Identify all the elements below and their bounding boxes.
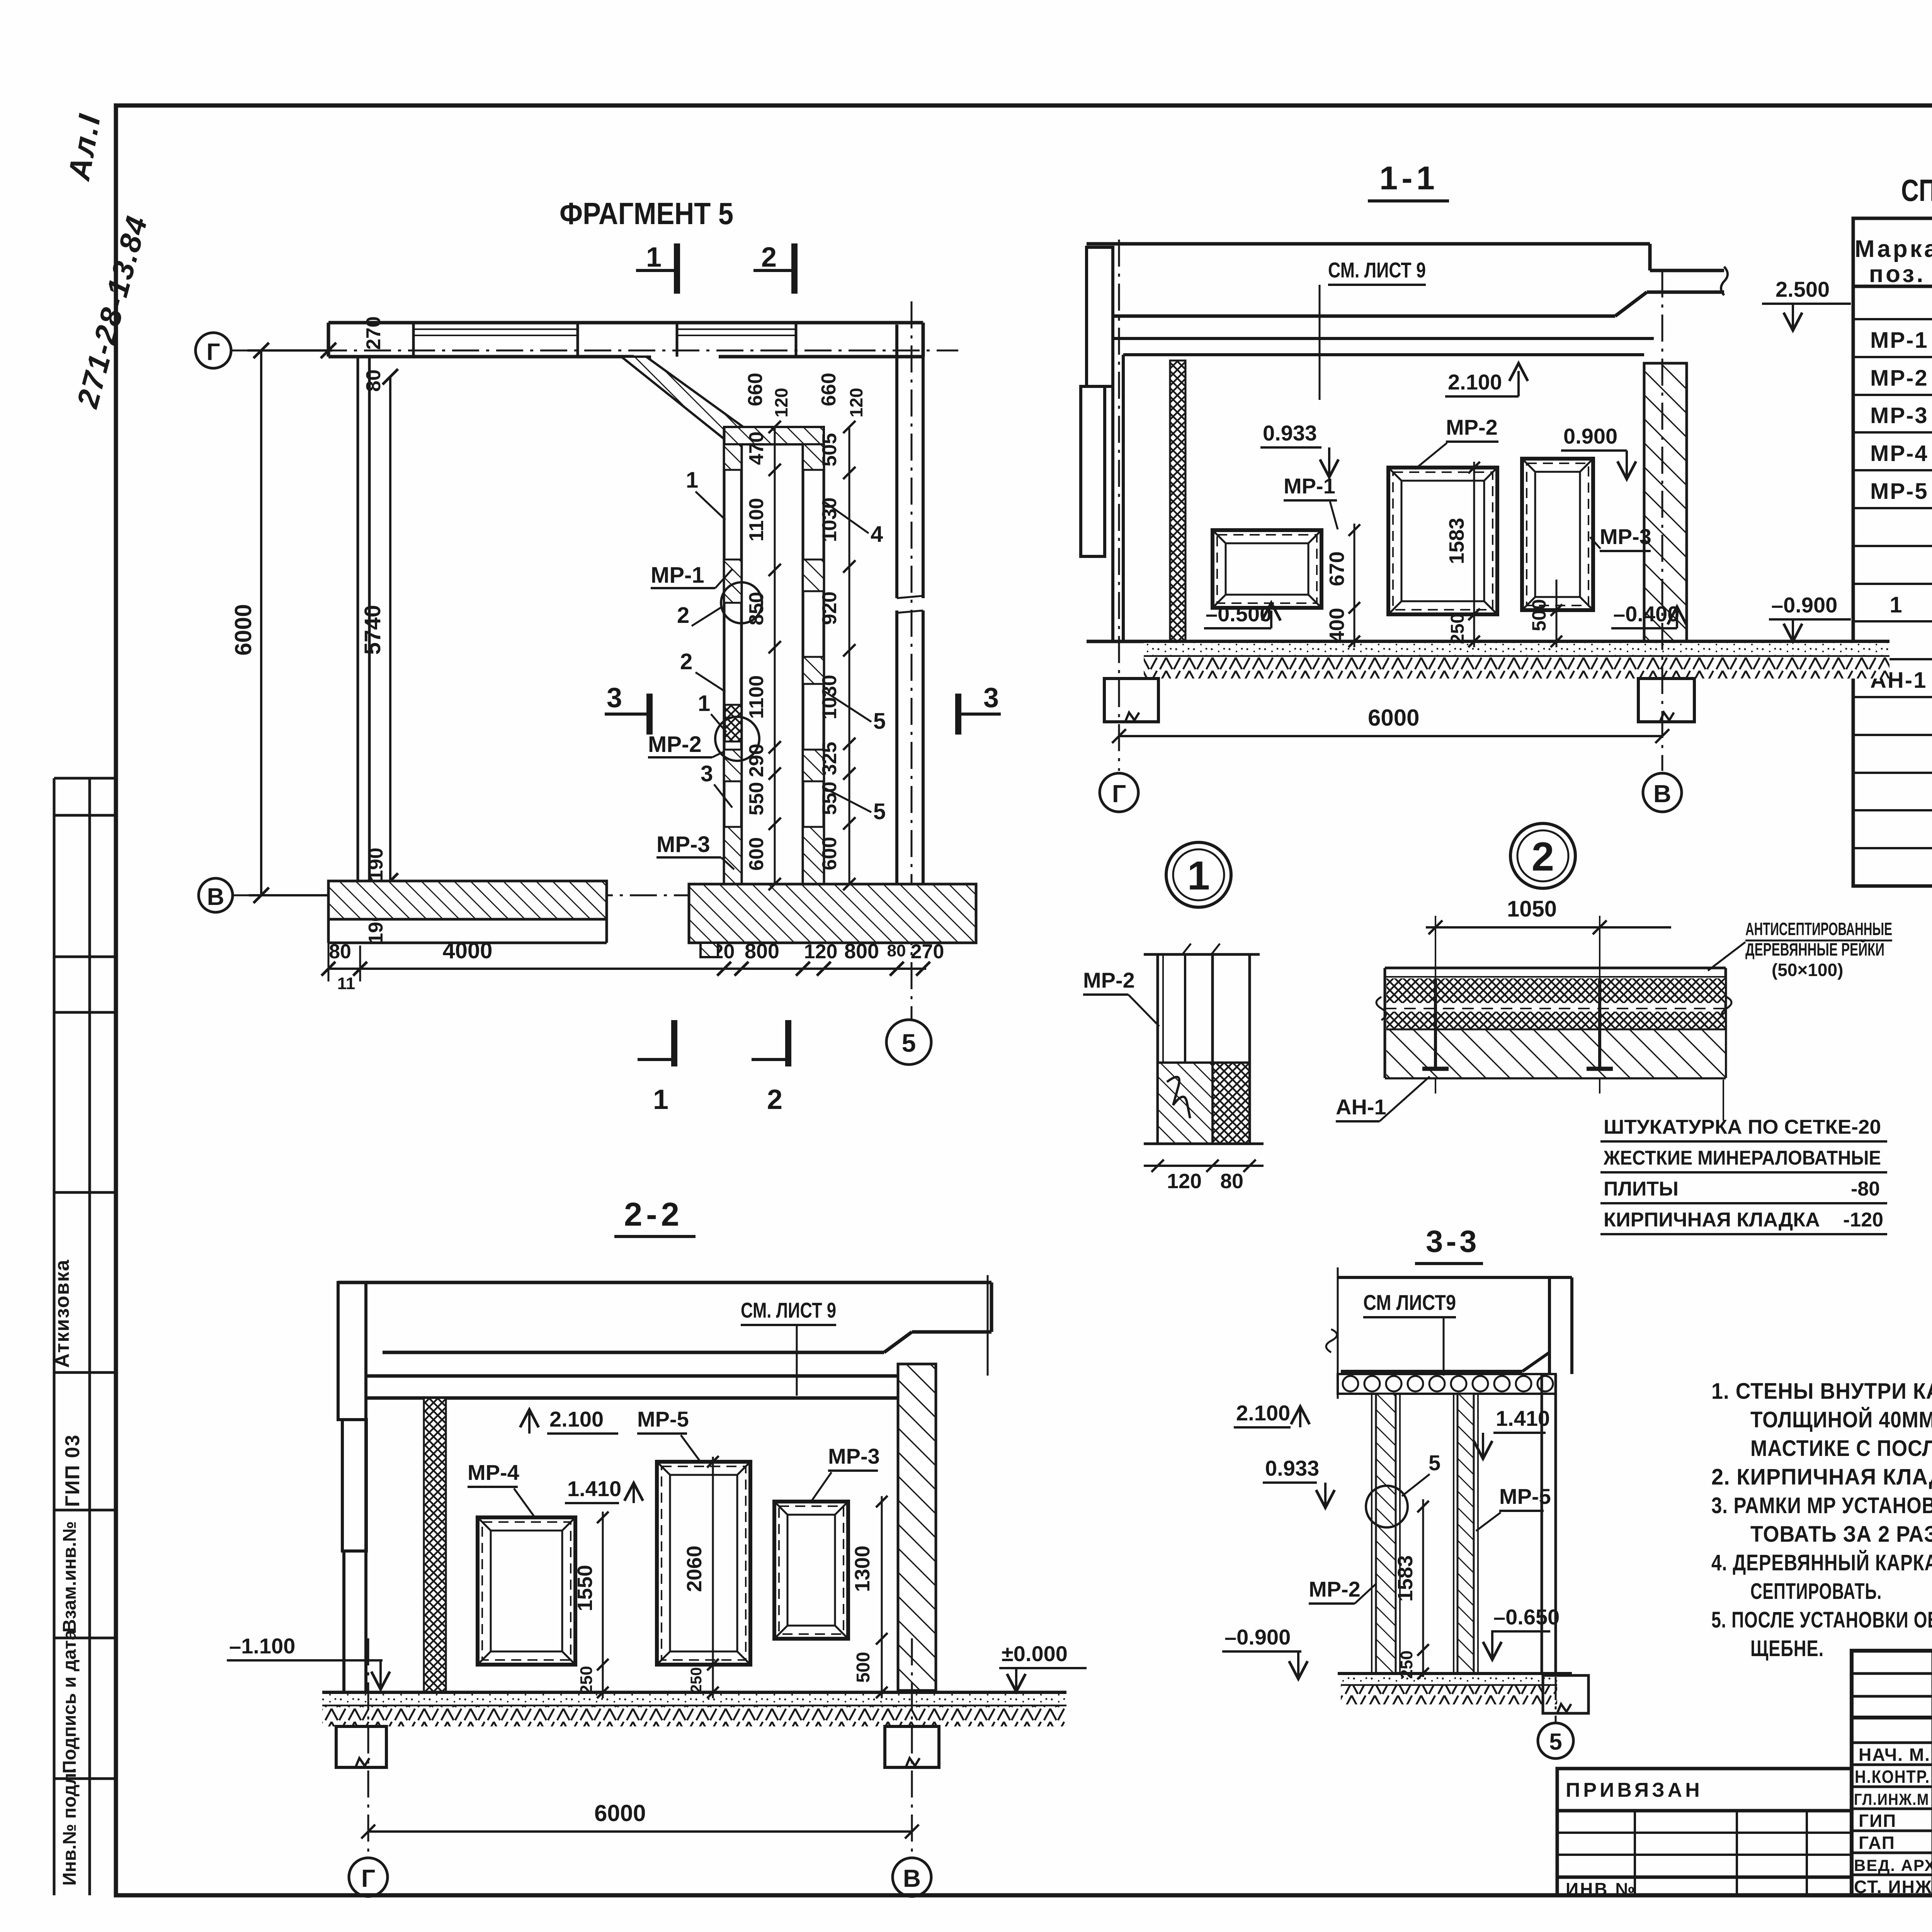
svg-text:Взам.инв.№: Взам.инв.№ [60, 1521, 80, 1633]
svg-text:–0.650: –0.650 [1493, 1605, 1560, 1629]
svg-text:1. СТЕНЫ ВНУТРИ КАМЕРЫ ИЗОЛ: 1. СТЕНЫ ВНУТРИ КАМЕРЫ ИЗОЛИРУЮТСЯ ЖЕСТК… [1711, 1379, 1932, 1404]
svg-text:ВЕД. АРХ.: ВЕД. АРХ. [1854, 1856, 1932, 1874]
PLAN: Fragment 5 [196, 196, 1001, 1115]
svg-text:1.410: 1.410 [567, 1476, 621, 1501]
svg-text:660: 660 [744, 373, 767, 406]
svg-text:5. ПОСЛЕ УСТАНОВКИ ОБОРУДОВА: 5. ПОСЛЕ УСТАНОВКИ ОБОРУДОВАНИЯ ЗАЗОРЫ П… [1711, 1607, 1932, 1633]
svg-text:СЕПТИРОВАТЬ.: СЕПТИРОВАТЬ. [1750, 1579, 1882, 1604]
svg-text:-80: -80 [1851, 1178, 1880, 1200]
svg-text:ТОЛЩИНОЙ 40ММ γ=300КГ/М³ ПО: ТОЛЩИНОЙ 40ММ γ=300КГ/М³ ПО ДЕРЕВЯННОМУ … [1750, 1407, 1932, 1432]
svg-text:0.933: 0.933 [1265, 1456, 1319, 1480]
svg-text:1: 1 [1187, 853, 1210, 898]
svg-text:1.410: 1.410 [1496, 1406, 1550, 1430]
svg-text:500: 500 [853, 1652, 874, 1683]
svg-text:КИРПИЧНАЯ КЛАДКА: КИРПИЧНАЯ КЛАДКА [1604, 1209, 1820, 1231]
svg-text:2.500: 2.500 [1776, 277, 1830, 301]
svg-text:Марка: Марка [1855, 236, 1932, 262]
svg-text:290: 290 [745, 744, 768, 777]
svg-text:470: 470 [745, 432, 768, 465]
svg-text:2.100: 2.100 [549, 1407, 604, 1431]
svg-text:Н.КОНТР.: Н.КОНТР. [1855, 1767, 1930, 1787]
svg-text:Подпись и дата: Подпись и дата [60, 1630, 80, 1774]
svg-text:250: 250 [688, 1667, 705, 1693]
svg-text:Г: Г [206, 339, 220, 366]
svg-text:СМ. ЛИСТ 9: СМ. ЛИСТ 9 [1328, 258, 1426, 282]
svg-text:1: 1 [646, 242, 662, 273]
svg-text:2: 2 [761, 242, 777, 273]
DETAIL 2 [1336, 823, 1892, 1234]
svg-text:600: 600 [745, 837, 768, 871]
svg-text:1050: 1050 [1507, 896, 1557, 922]
svg-text:ШТУКАТУРКА ПО СЕТКЕ-20: ШТУКАТУРКА ПО СЕТКЕ-20 [1604, 1116, 1881, 1138]
svg-text:3: 3 [607, 682, 622, 713]
left margin stamp strip [51, 778, 116, 1895]
svg-text:5: 5 [873, 799, 886, 824]
svg-text:0.900: 0.900 [1563, 424, 1617, 448]
svg-text:120: 120 [771, 388, 791, 418]
svg-text:ГАП: ГАП [1859, 1833, 1895, 1853]
svg-text:1-1: 1-1 [1379, 160, 1439, 197]
svg-text:3: 3 [701, 761, 713, 786]
svg-text:3-3: 3-3 [1426, 1224, 1480, 1259]
svg-text:920: 920 [818, 592, 841, 625]
svg-text:МАСТИКЕ С ПОСЛЕДУЮЩЕЙ ШТУКАТ: МАСТИКЕ С ПОСЛЕДУЮЩЕЙ ШТУКАТУРКОЙ ПО СЕТ… [1750, 1436, 1932, 1461]
svg-text:3: 3 [983, 682, 999, 713]
svg-text:500: 500 [1528, 599, 1550, 631]
svg-text:МР-2: МР-2 [1870, 366, 1929, 391]
svg-text:2: 2 [767, 1084, 782, 1115]
svg-text:МР-3: МР-3 [656, 832, 710, 857]
svg-text:Инв.№ подл.: Инв.№ подл. [60, 1768, 80, 1886]
svg-text:2: 2 [680, 649, 692, 674]
svg-text:0.933: 0.933 [1263, 421, 1317, 445]
svg-text:670: 670 [1325, 551, 1349, 586]
svg-text:ПРИВЯЗАН: ПРИВЯЗАН [1566, 1779, 1703, 1801]
svg-text:МР-2: МР-2 [1083, 968, 1135, 992]
svg-text:–1.100: –1.100 [229, 1634, 295, 1658]
SECTION 1-1 [1081, 160, 1889, 812]
svg-text:5740: 5740 [360, 605, 385, 655]
svg-text:3. РАМКИ МР УСТАНОВИТЬ ОДНО: 3. РАМКИ МР УСТАНОВИТЬ ОДНОВРЕМЕННО С КЛ… [1711, 1493, 1932, 1518]
svg-text:–0.900: –0.900 [1771, 593, 1837, 617]
svg-text:5: 5 [902, 1029, 916, 1057]
svg-text:1: 1 [686, 468, 698, 493]
svg-text:1: 1 [698, 691, 710, 716]
svg-text:ГИП: ГИП [1859, 1811, 1896, 1831]
svg-text:В: В [903, 1864, 921, 1892]
svg-text:1100: 1100 [745, 675, 768, 719]
svg-text:МР-4: МР-4 [468, 1460, 519, 1485]
svg-text:850: 850 [745, 592, 768, 626]
svg-text:СМ ЛИСТ9: СМ ЛИСТ9 [1363, 1290, 1456, 1315]
svg-text:1550: 1550 [573, 1565, 597, 1611]
svg-text:МР-2: МР-2 [648, 732, 702, 757]
svg-text:МР-2: МР-2 [1446, 415, 1498, 439]
svg-text:В: В [207, 884, 224, 910]
svg-text:МР-4: МР-4 [1870, 441, 1929, 466]
svg-text:±0.000: ±0.000 [1002, 1641, 1068, 1666]
svg-text:МР-3: МР-3 [828, 1444, 880, 1468]
svg-text:(50×100): (50×100) [1772, 960, 1843, 980]
svg-text:ГИП 03: ГИП 03 [61, 1434, 84, 1507]
svg-text:ФРАГМЕНТ 5: ФРАГМЕНТ 5 [560, 196, 733, 231]
svg-text:2.100: 2.100 [1236, 1401, 1290, 1425]
svg-text:600: 600 [818, 837, 841, 871]
title block [1852, 1651, 1932, 1899]
svg-text:Г: Г [361, 1864, 375, 1892]
svg-text:МР-5: МР-5 [1499, 1484, 1551, 1509]
svg-text:1030: 1030 [818, 675, 841, 719]
rotated handwriting top-left [61, 110, 154, 412]
svg-text:Аткизовка: Аткизовка [51, 1259, 73, 1368]
svg-text:2060: 2060 [683, 1546, 706, 1592]
svg-text:ЩЕБНЕ.: ЩЕБНЕ. [1750, 1636, 1824, 1661]
svg-text:4. ДЕРЕВЯННЫЙ КАРКАС ИЗ БРУ: 4. ДЕРЕВЯННЫЙ КАРКАС ИЗ БРУСКОВ ПОДВЕРГН… [1711, 1550, 1932, 1575]
svg-text:80: 80 [362, 369, 385, 392]
svg-text:НАЧ. М.: НАЧ. М. [1859, 1745, 1930, 1765]
svg-text:120: 120 [1167, 1170, 1202, 1193]
svg-text:МР-1: МР-1 [1870, 328, 1929, 353]
SECTION 3-3 [1222, 1224, 1588, 1759]
svg-text:1: 1 [1889, 592, 1903, 617]
svg-text:5: 5 [1549, 1729, 1562, 1755]
svg-text:2.100: 2.100 [1448, 370, 1502, 394]
svg-text:550: 550 [745, 782, 768, 816]
svg-text:-120: -120 [1843, 1209, 1883, 1231]
svg-text:2: 2 [677, 603, 689, 628]
specification table [1853, 218, 1932, 886]
svg-text:6000: 6000 [230, 604, 256, 655]
svg-text:В: В [1653, 780, 1671, 808]
svg-text:–0.900: –0.900 [1225, 1625, 1291, 1649]
svg-text:МР-2: МР-2 [1309, 1577, 1361, 1601]
svg-text:СПЕЦИФИКАЦИЯ МАТЕРИАЛОВ НА ВЕН: СПЕЦИФИКАЦИЯ МАТЕРИАЛОВ НА ВЕНТКАМЕРУ [1901, 173, 1932, 207]
svg-text:11: 11 [337, 974, 355, 993]
svg-text:СТ. ИНЖ.: СТ. ИНЖ. [1854, 1877, 1932, 1897]
svg-text:1583: 1583 [1394, 1555, 1417, 1602]
svg-text:ИНВ №: ИНВ № [1566, 1879, 1637, 1899]
svg-text:1100: 1100 [745, 498, 768, 542]
svg-text:2-2: 2-2 [624, 1196, 683, 1233]
svg-text:6000: 6000 [1368, 705, 1419, 731]
svg-text:МР-3: МР-3 [1600, 524, 1651, 549]
svg-text:1300: 1300 [851, 1546, 874, 1592]
svg-text:5: 5 [873, 709, 886, 734]
svg-text:505: 505 [818, 433, 841, 467]
notes 1-5 [1711, 1379, 1932, 1661]
svg-text:1583: 1583 [1445, 518, 1468, 564]
svg-text:250: 250 [577, 1666, 596, 1694]
svg-text:6000: 6000 [594, 1800, 646, 1826]
specification table title [1901, 173, 1932, 207]
svg-text:Г: Г [1112, 780, 1126, 808]
svg-text:СМ. ЛИСТ 9: СМ. ЛИСТ 9 [741, 1298, 836, 1322]
svg-text:1030: 1030 [818, 497, 841, 542]
svg-text:ГЛ.ИНЖ.М: ГЛ.ИНЖ.М [1854, 1790, 1929, 1808]
svg-text:МР-1: МР-1 [1284, 474, 1335, 498]
svg-text:ТОВАТЬ ЗА 2 РАЗА И ПОКРАСИ: ТОВАТЬ ЗА 2 РАЗА И ПОКРАСИТЬ ЭМАЛЬЮ В ЧЕ… [1750, 1522, 1932, 1547]
privyazan table [1557, 1769, 1852, 1899]
svg-text:5: 5 [1429, 1451, 1440, 1475]
DETAIL 1 [1083, 842, 1264, 1193]
svg-text:ЖЕСТКИЕ МИНЕРАЛОВАТНЫЕ: ЖЕСТКИЕ МИНЕРАЛОВАТНЫЕ [1603, 1147, 1881, 1169]
svg-text:660: 660 [818, 373, 840, 406]
svg-text:поз.: поз. [1869, 261, 1926, 287]
svg-text:2: 2 [1532, 834, 1554, 879]
svg-text:4: 4 [871, 522, 883, 547]
svg-text:МР-1: МР-1 [651, 563, 704, 588]
svg-text:1: 1 [653, 1084, 668, 1115]
svg-text:250: 250 [1447, 613, 1468, 644]
svg-text:325: 325 [818, 742, 841, 776]
svg-text:250: 250 [1397, 1650, 1416, 1679]
svg-text:МР-3: МР-3 [1870, 403, 1929, 428]
svg-text:400: 400 [1325, 608, 1349, 643]
svg-text:ДЕРЕВЯННЫЕ РЕЙКИ: ДЕРЕВЯННЫЕ РЕЙКИ [1745, 939, 1884, 959]
svg-text:–0.500: –0.500 [1206, 602, 1272, 626]
svg-text:80: 80 [1220, 1170, 1243, 1193]
svg-text:АН-1: АН-1 [1336, 1095, 1386, 1119]
SECTION 2-2 [227, 1196, 1087, 1896]
svg-text:МР-5: МР-5 [637, 1407, 689, 1431]
svg-text:2. КИРПИЧНАЯ КЛАДКА ИЗ КИРП: 2. КИРПИЧНАЯ КЛАДКА ИЗ КИРПИЧА М75 НА РА… [1711, 1464, 1932, 1490]
svg-text:550: 550 [818, 782, 841, 815]
svg-text:120: 120 [846, 388, 866, 418]
svg-text:МР-5: МР-5 [1870, 479, 1929, 504]
svg-text:АНТИСЕПТИРОВАННЫЕ: АНТИСЕПТИРОВАННЫЕ [1745, 919, 1892, 939]
svg-text:ПЛИТЫ: ПЛИТЫ [1604, 1178, 1679, 1200]
